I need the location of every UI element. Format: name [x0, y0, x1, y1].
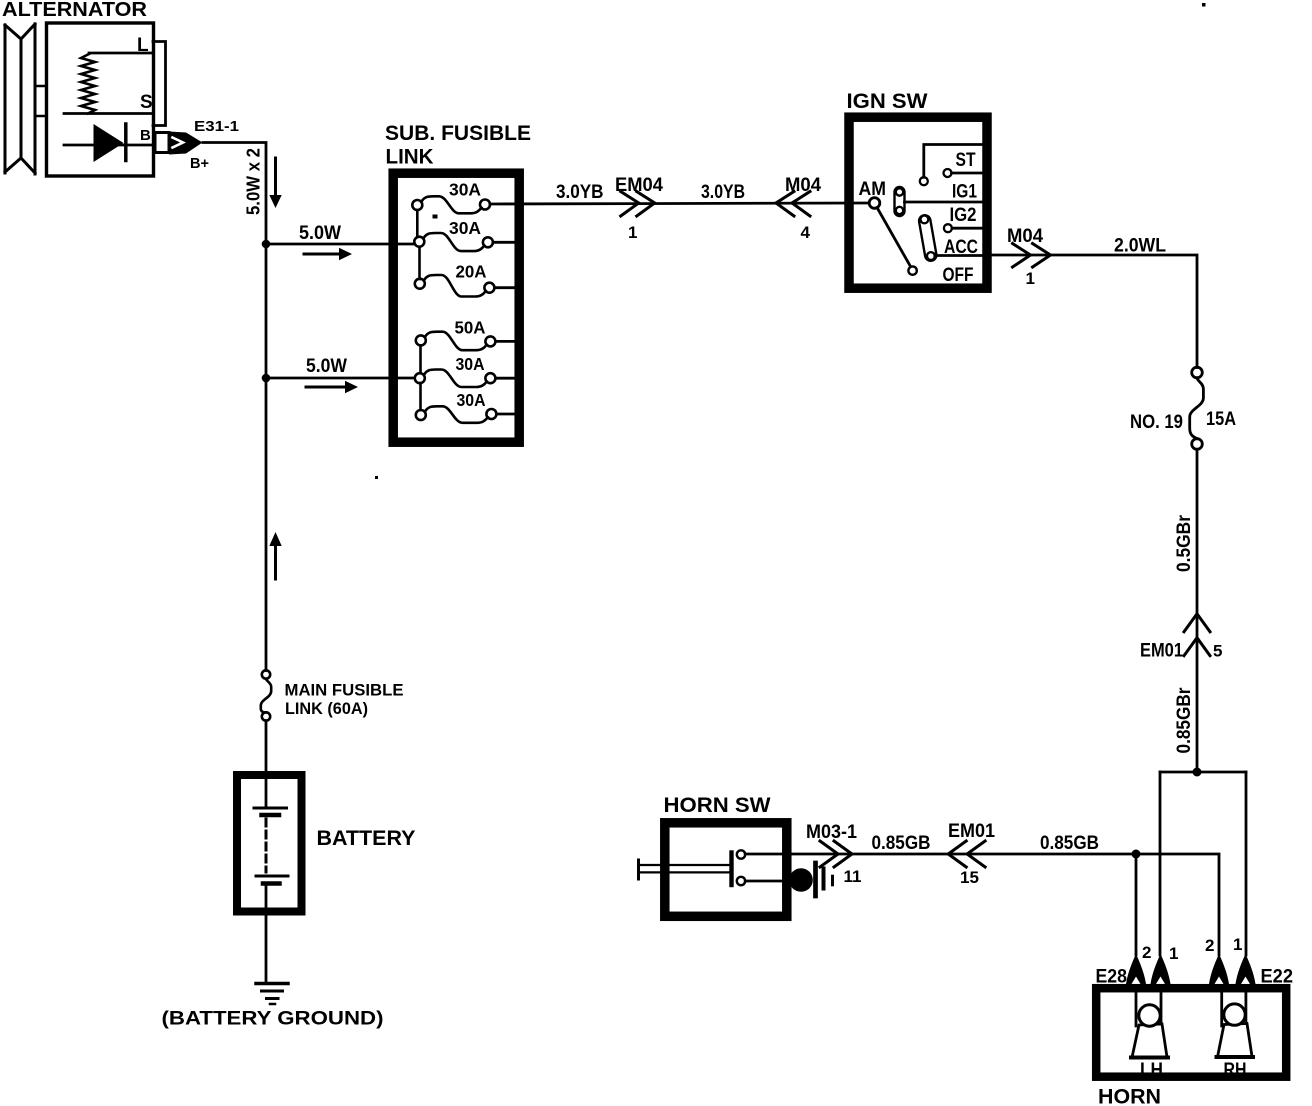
wire from E31-1 to main vertical	[203, 143, 266, 245]
horn switch contacts	[737, 850, 745, 858]
svg-text:NO. 19: NO. 19	[1130, 412, 1183, 433]
svg-text:0.85GBr: 0.85GBr	[1174, 687, 1195, 754]
svg-text:1: 1	[1233, 935, 1242, 954]
ST contact	[920, 177, 928, 185]
wire to LH horn pin1	[1159, 772, 1162, 955]
horn LH	[1131, 992, 1168, 1081]
svg-text:1: 1	[1026, 269, 1035, 288]
node junction 1	[262, 240, 271, 249]
svg-text:LINK (60A): LINK (60A)	[285, 699, 368, 718]
svg-text:30A: 30A	[449, 218, 481, 238]
sub fusible link box	[393, 173, 519, 442]
svg-text:3.0YB: 3.0YB	[701, 182, 745, 203]
switch blade	[877, 208, 911, 267]
BATTERY box	[237, 775, 302, 912]
wire F6 stub	[496, 413, 519, 416]
connector E28 pin2 arrow	[1126, 954, 1146, 984]
svg-text:B+: B+	[190, 155, 209, 172]
svg-text:HORN SW: HORN SW	[664, 794, 771, 817]
svg-text:L: L	[137, 35, 149, 56]
svg-text:30A: 30A	[456, 354, 485, 374]
wire S	[64, 112, 153, 115]
body ground 11	[789, 868, 813, 892]
IGN SW box	[849, 117, 987, 288]
wire main vertical to junction 2	[265, 244, 268, 378]
speck top right	[1202, 3, 1206, 7]
connector B terminal stub	[155, 133, 169, 153]
connector EM01 chevrons (pointing up)	[1184, 614, 1210, 656]
node horn signal junction	[1132, 850, 1141, 859]
svg-text:3.0YB: 3.0YB	[556, 182, 604, 203]
wire IG1	[905, 201, 983, 204]
flow arrow right lower	[306, 386, 345, 389]
svg-text:50A: 50A	[455, 318, 486, 338]
svg-text:MAIN FUSIBLE: MAIN FUSIBLE	[285, 681, 404, 700]
svg-text:2.0WL: 2.0WL	[1114, 236, 1166, 257]
svg-text:EM01: EM01	[1140, 641, 1183, 662]
svg-text:15: 15	[960, 868, 979, 887]
fuse F4 50A	[416, 318, 496, 351]
wire F5-F6 link	[419, 383, 422, 410]
svg-text:IGN SW: IGN SW	[847, 90, 928, 113]
HORN SW box	[665, 823, 787, 917]
IG2-ACC contact capsule (tilted)	[918, 214, 937, 261]
horn switch plunger	[637, 860, 640, 879]
svg-text:HORN: HORN	[1098, 1086, 1161, 1106]
svg-text:B: B	[140, 127, 151, 144]
wire battery to ground	[265, 884, 268, 982]
svg-text:SUB. FUSIBLE: SUB. FUSIBLE	[385, 122, 531, 145]
svg-text:IG1: IG1	[952, 182, 977, 203]
diode D1	[94, 124, 124, 162]
connector EM04 chevrons	[621, 192, 655, 217]
svg-text:30A: 30A	[457, 390, 486, 410]
connector EM01 chevrons (pointing left)	[948, 841, 985, 867]
wire fusible link to battery	[265, 721, 268, 808]
wire F4-F5 link	[419, 346, 422, 374]
svg-text:(BATTERY GROUND): (BATTERY GROUND)	[162, 1008, 384, 1030]
connector M04 chevrons (pointing left)	[776, 192, 810, 217]
wire F2-F3 link	[418, 247, 421, 279]
alternator shaft	[36, 86, 47, 116]
svg-text:2: 2	[1205, 936, 1214, 955]
fuse F2 30A	[414, 218, 493, 251]
connector E31-1 arrow	[169, 132, 203, 155]
connector E28 pin1 arrow	[1151, 954, 1171, 984]
flow arrow up	[274, 546, 277, 579]
wire main vertical down to fusible link	[265, 378, 268, 671]
node junction 2	[262, 374, 271, 383]
svg-text:20A: 20A	[456, 262, 487, 282]
wire 5.0W upper	[266, 243, 414, 246]
svg-text:0.85GB: 0.85GB	[1040, 833, 1099, 854]
wire 0.5GBr	[1196, 449, 1199, 772]
wire L	[89, 52, 153, 55]
wire F4 stub	[495, 340, 519, 343]
wire F1-F2 link	[416, 210, 419, 237]
wire F5 stub	[495, 377, 519, 380]
flow arrow down	[274, 158, 277, 196]
alternator box	[47, 23, 154, 176]
L-S external bracket	[153, 42, 166, 126]
fuse F1 30A	[412, 180, 490, 214]
node horn power junction	[1193, 768, 1202, 777]
wire F2 stub	[493, 241, 519, 244]
svg-text:11: 11	[844, 867, 862, 886]
diode D1 wire	[64, 144, 153, 147]
battery ground symbol	[256, 982, 288, 986]
svg-text:4: 4	[801, 223, 811, 242]
svg-text:30A: 30A	[449, 180, 481, 200]
svg-text:BATTERY: BATTERY	[317, 827, 416, 850]
wire horn power rail	[1160, 771, 1246, 774]
svg-text:15A: 15A	[1206, 409, 1236, 430]
svg-text:LINK: LINK	[386, 146, 434, 169]
alternator pulley	[5, 24, 35, 174]
svg-text:OFF: OFF	[943, 265, 974, 286]
fuse F3 20A	[415, 262, 495, 297]
svg-text:2: 2	[1142, 943, 1151, 962]
svg-text:M03-1: M03-1	[806, 822, 857, 843]
AM-IG1 contact capsule	[895, 187, 905, 216]
svg-text:ALTERNATOR: ALTERNATOR	[2, 0, 148, 21]
connector E22 pin2 arrow	[1209, 954, 1229, 984]
wire horn SW to ground	[745, 880, 791, 883]
connector M03-1 chevrons (pointing right)	[820, 841, 852, 867]
wire F3 stub	[494, 286, 519, 289]
wire to LH horn pin2	[1135, 854, 1138, 955]
wire ACC to 2.0WL corner	[992, 255, 1197, 368]
svg-text:E31-1: E31-1	[194, 118, 239, 135]
main fusible link (60A)	[261, 670, 271, 720]
wire horn SW out (0.85GB)	[745, 854, 1219, 955]
alternator field coil	[81, 54, 95, 114]
svg-text:1: 1	[1169, 944, 1178, 963]
flow arrow right upper	[304, 253, 340, 256]
connector M04 chevrons (pointing right)	[1013, 244, 1051, 268]
svg-text:0.85GB: 0.85GB	[872, 833, 931, 854]
svg-text:5: 5	[1213, 642, 1222, 661]
svg-text:0.5GBr: 0.5GBr	[1174, 514, 1195, 572]
speck mid	[375, 476, 378, 479]
svg-text:RH: RH	[1224, 1060, 1247, 1081]
wire ACC out	[935, 254, 982, 257]
speck	[433, 215, 438, 219]
fuse NO.19 15A	[1190, 367, 1204, 449]
wire to RH horn pin1	[1245, 772, 1248, 955]
wire 5.0W lower	[266, 377, 415, 380]
wire F1 to IGN SW (3.0YB)	[490, 203, 869, 204]
svg-text:1: 1	[628, 223, 637, 242]
fuse F5 30A	[415, 354, 496, 387]
svg-text:EM01: EM01	[948, 821, 995, 842]
fuse F6 30A	[416, 390, 497, 423]
HORN box	[1096, 988, 1286, 1076]
svg-text:IG2: IG2	[950, 205, 977, 226]
horn RH	[1217, 992, 1254, 1081]
svg-text:5.0W: 5.0W	[299, 223, 341, 244]
connector E22 pin1 arrow	[1236, 954, 1256, 984]
svg-text:ST: ST	[956, 150, 976, 171]
svg-text:LH: LH	[1140, 1060, 1163, 1081]
svg-text:5.0W: 5.0W	[306, 356, 347, 377]
svg-text:S: S	[140, 92, 153, 113]
battery cell symbol	[254, 807, 287, 810]
svg-text:5.0W x 2: 5.0W x 2	[244, 148, 264, 215]
